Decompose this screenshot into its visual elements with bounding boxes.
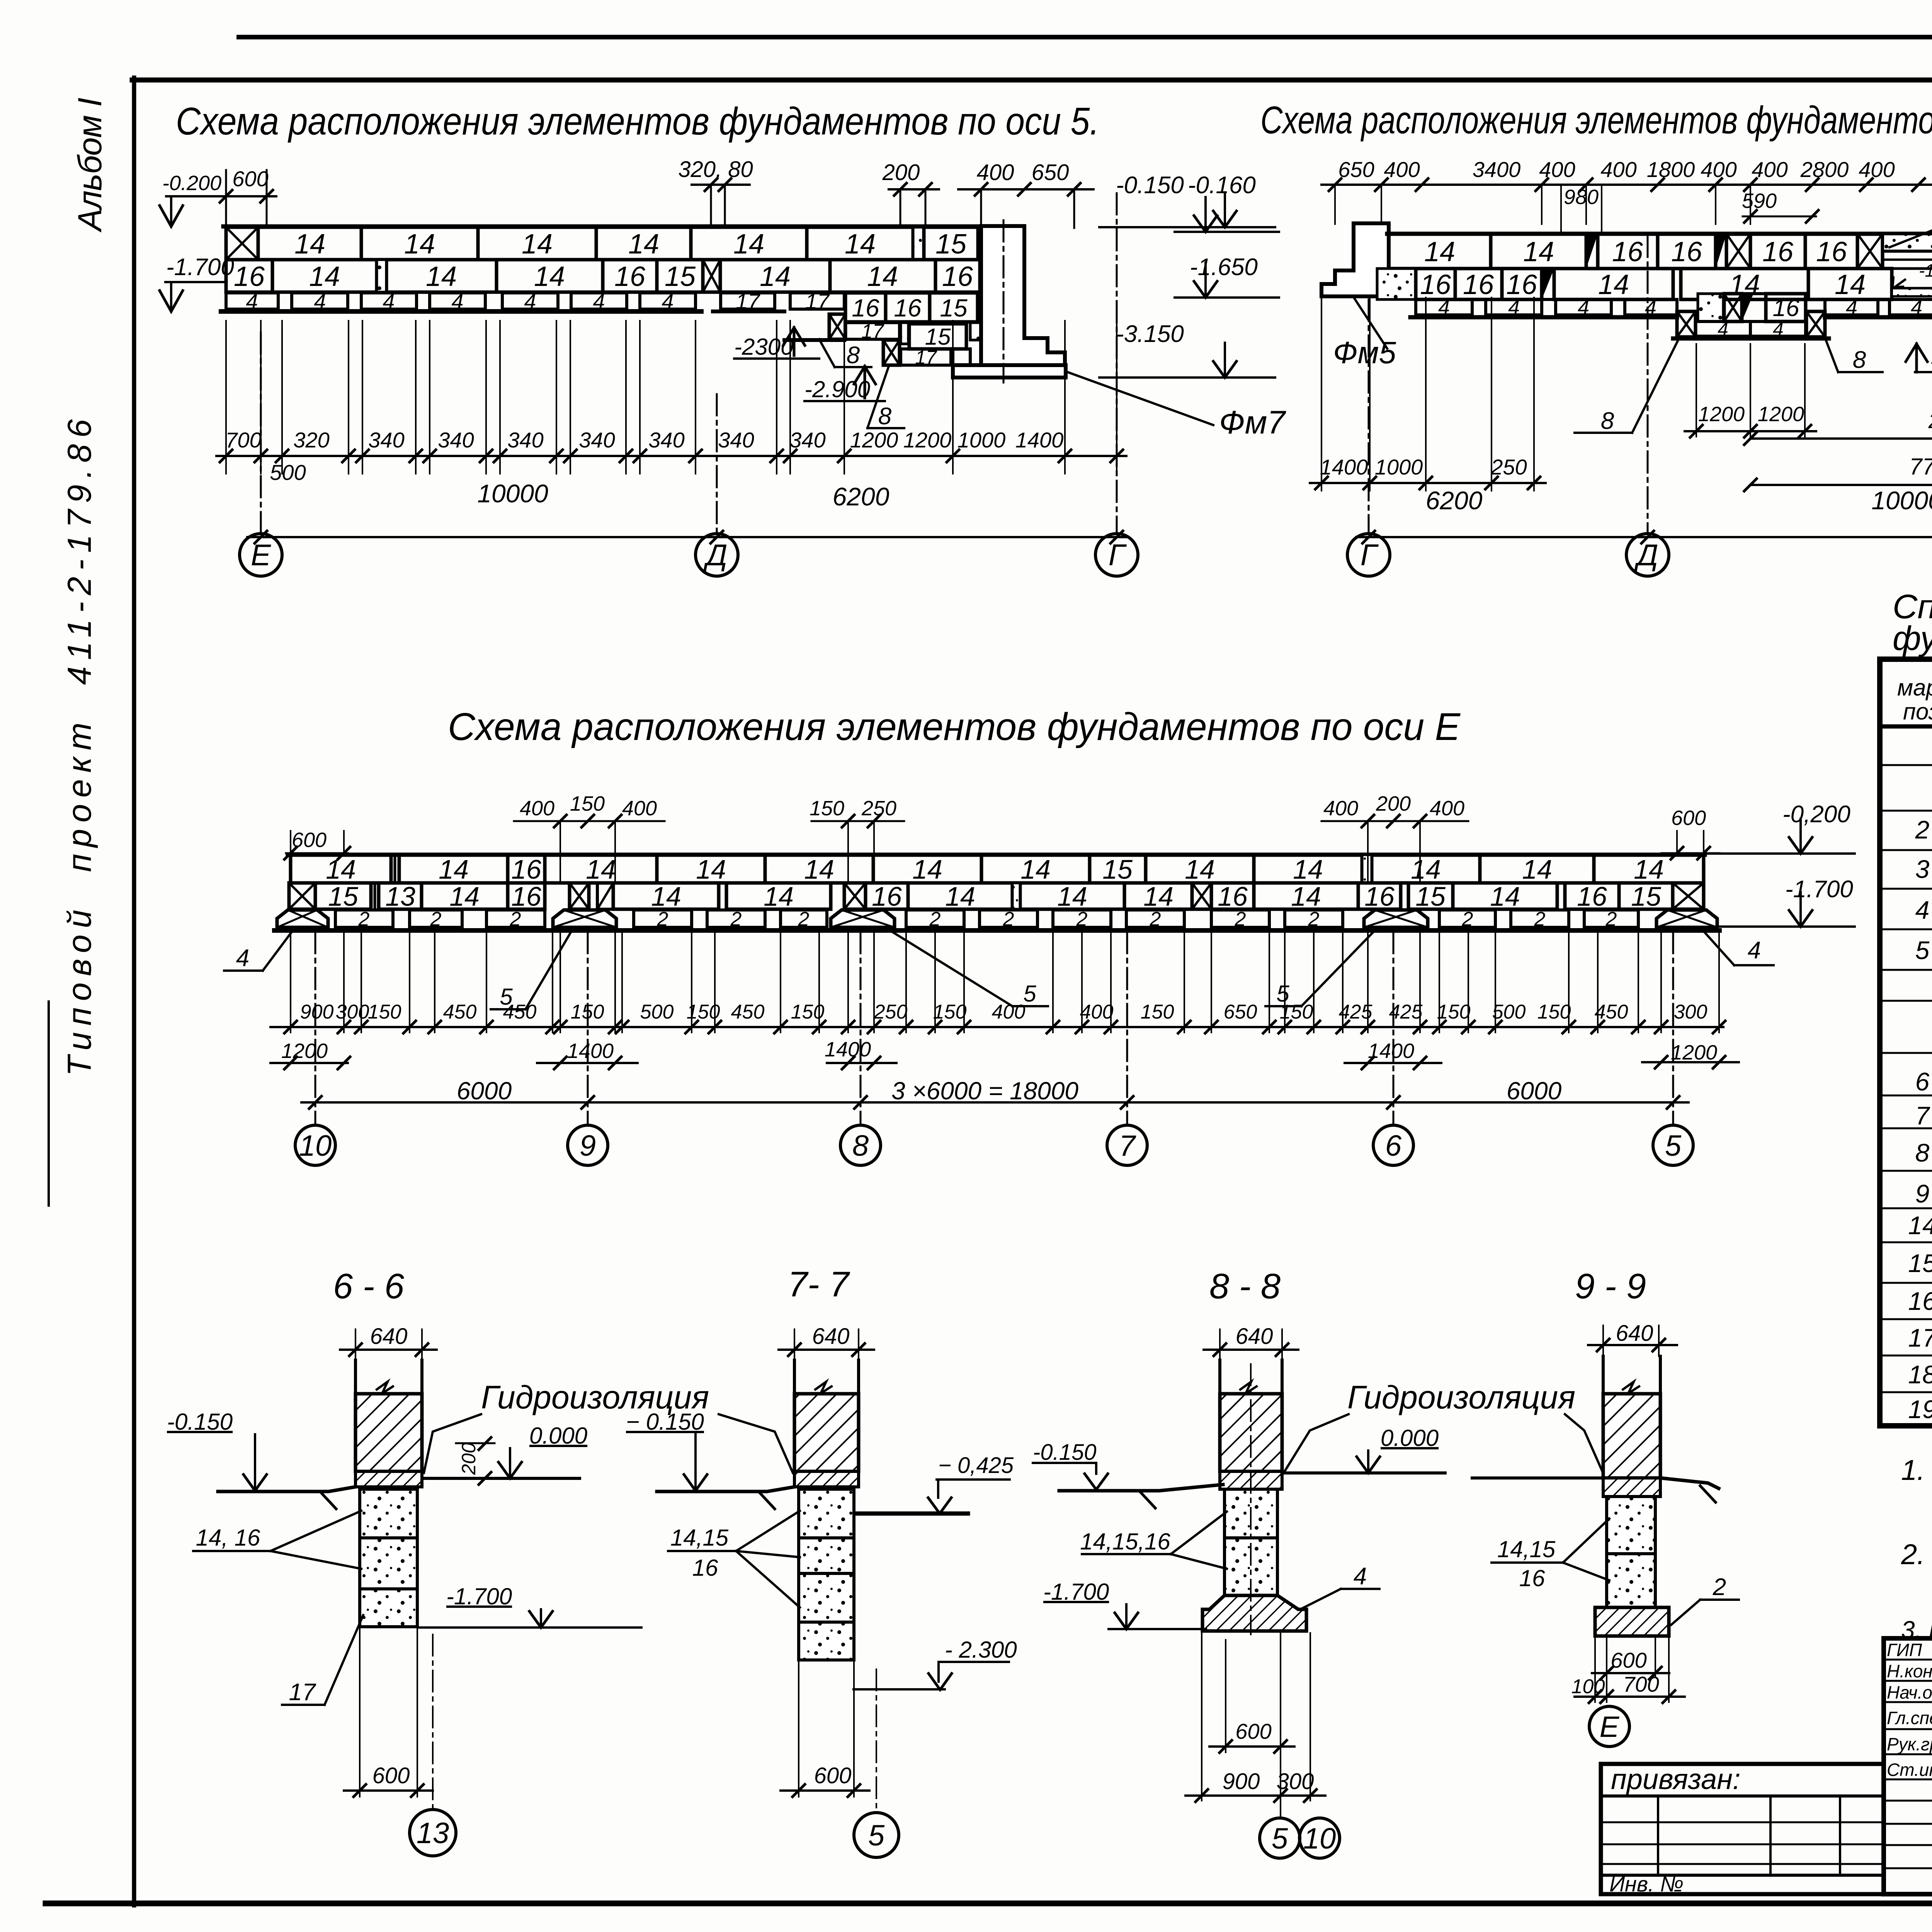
svg-text:2: 2 <box>430 908 442 930</box>
svg-text:9: 9 <box>1915 1179 1930 1208</box>
svg-text:400: 400 <box>1384 157 1420 182</box>
scheme 10: middle pier below <box>1677 311 1696 337</box>
svg-text:150: 150 <box>687 1001 720 1023</box>
svg-text:17: 17 <box>1908 1323 1932 1352</box>
svg-text:15: 15 <box>1415 881 1446 912</box>
scheme 10: base plates row <box>1416 299 1472 315</box>
section 7-7: axis circle 5 <box>876 1669 877 1812</box>
svg-text:Схема расположения элементо: Схема расположения элементов фундаментов… <box>448 705 1461 748</box>
svg-text:6: 6 <box>1385 1129 1402 1162</box>
svg-text:14: 14 <box>651 881 681 912</box>
svg-text:200: 200 <box>882 160 920 185</box>
svg-text:− 0.150: − 0.150 <box>626 1409 704 1435</box>
svg-text:1800: 1800 <box>1647 157 1695 182</box>
svg-text:Типовой проект 411-2-179.86: Типовой проект 411-2-179.86 <box>61 419 98 1076</box>
svg-text:340: 340 <box>579 428 615 452</box>
section 9-9: wall column hatched <box>1602 1356 1605 1395</box>
section 8-8: waterproofing band <box>1220 1471 1282 1489</box>
scheme E: axis centerlines <box>315 932 316 1124</box>
svg-text:14: 14 <box>534 261 565 292</box>
scheme 5: bottom dim line with ticks <box>216 455 1126 457</box>
svg-text:2: 2 <box>1308 908 1320 930</box>
svg-text:15: 15 <box>1102 854 1133 884</box>
svg-text:400: 400 <box>1430 797 1464 820</box>
svg-text:-0.150: -0.150 <box>1033 1440 1096 1465</box>
svg-text:200: 200 <box>458 1442 480 1475</box>
svg-text:150: 150 <box>1280 1001 1313 1023</box>
scheme 10: bottom dims 1400 1000 250 <box>1321 298 1322 491</box>
svg-text:10000: 10000 <box>477 479 548 508</box>
svg-text:Инв. №: Инв. № <box>1609 1872 1684 1896</box>
section 9-9: bottom dims 600 100 700 <box>1606 1638 1607 1702</box>
svg-text:14: 14 <box>404 229 435 260</box>
svg-text:9 - 9: 9 - 9 <box>1575 1267 1646 1306</box>
svg-text:400: 400 <box>992 1001 1026 1023</box>
svg-text:250: 250 <box>874 1001 908 1023</box>
svg-text:Ст.инж.: Ст.инж. <box>1887 1760 1932 1780</box>
svg-text:5: 5 <box>868 1819 885 1852</box>
scheme 5: row2 blocks <box>226 260 272 292</box>
svg-text:1400: 1400 <box>567 1039 614 1063</box>
svg-text:14: 14 <box>439 854 469 884</box>
section 9-9: axis circle E <box>1589 1706 1629 1747</box>
svg-text:150: 150 <box>1537 1001 1571 1023</box>
scheme E: base plates row 2 <box>335 910 393 927</box>
svg-text:500: 500 <box>640 1001 674 1023</box>
svg-text:16: 16 <box>1506 269 1537 300</box>
svg-text:15: 15 <box>1908 1249 1932 1277</box>
section 7-7: bottom 600 dim <box>798 1662 799 1797</box>
svg-text:2. Монолитные участки л: 2. Монолитные участки ленточных фундамен… <box>1901 1538 1932 1570</box>
svg-text:14: 14 <box>1057 881 1087 912</box>
svg-text:14, 16: 14, 16 <box>196 1525 260 1551</box>
scheme 5: row1 blocks <box>226 227 258 260</box>
svg-text:14: 14 <box>426 261 457 292</box>
svg-text:340: 340 <box>789 428 825 452</box>
svg-text:ГИП: ГИП <box>1887 1640 1922 1660</box>
scheme E: heavy bottom line <box>274 928 1719 933</box>
svg-text:450: 450 <box>503 1001 537 1023</box>
svg-text:Фм7: Фм7 <box>1219 404 1286 440</box>
svg-text:600: 600 <box>1235 1719 1271 1743</box>
scheme 10: axis centerlines <box>1368 299 1370 533</box>
svg-text:марка,: марка, <box>1897 675 1932 701</box>
svg-text:Фм5: Фм5 <box>1333 335 1396 370</box>
scheme 5: axis circle G <box>1095 534 1138 576</box>
svg-text:2: 2 <box>358 908 370 930</box>
svg-text:340: 340 <box>648 428 684 452</box>
left margin fold mark <box>48 1002 50 1206</box>
scheme 10: axis circle D <box>1626 534 1669 576</box>
svg-text:4: 4 <box>236 945 249 971</box>
svg-text:-0.200: -0.200 <box>162 172 221 195</box>
scheme 10: left wall Fm5 <box>1321 223 1389 296</box>
svg-text:16: 16 <box>1519 1565 1545 1591</box>
section 7-7: wall column hatched <box>793 1360 796 1395</box>
svg-text:400: 400 <box>1859 157 1895 182</box>
svg-text:Гл.спец: Гл.спец <box>1887 1708 1932 1728</box>
section 7-7: concrete blocks <box>799 1489 854 1538</box>
svg-text:-1.700: -1.700 <box>1043 1579 1109 1605</box>
spec table header row <box>1880 724 1932 729</box>
bottom frame line <box>46 1901 1932 1906</box>
svg-text:600: 600 <box>814 1763 852 1788</box>
svg-text:1400: 1400 <box>1015 428 1064 452</box>
svg-text:16: 16 <box>852 294 879 322</box>
svg-text:14: 14 <box>294 229 325 260</box>
svg-text:14: 14 <box>1634 854 1664 884</box>
svg-text:1200: 1200 <box>1671 1041 1717 1064</box>
svg-text:150: 150 <box>791 1001 825 1023</box>
svg-text:1200: 1200 <box>1698 403 1745 426</box>
svg-text:425: 425 <box>1339 1001 1373 1023</box>
svg-text:8: 8 <box>1853 347 1866 373</box>
svg-text:Г: Г <box>1361 538 1379 572</box>
svg-text:300: 300 <box>1277 1769 1314 1794</box>
svg-text:400: 400 <box>1539 157 1575 182</box>
svg-text:Г: Г <box>1109 538 1127 572</box>
svg-text:250: 250 <box>1490 455 1527 479</box>
svg-text:14,15: 14,15 <box>670 1525 729 1551</box>
svg-text:2: 2 <box>657 908 668 930</box>
svg-text:14: 14 <box>1490 881 1520 912</box>
svg-text:-2300: -2300 <box>734 334 793 360</box>
svg-text:650: 650 <box>1338 157 1374 182</box>
svg-text:900: 900 <box>1223 1769 1260 1794</box>
scheme 5: axis circle E <box>240 534 282 576</box>
section 6-6: ground line left <box>218 1487 355 1492</box>
section 6-6: floor line and 0.000 <box>422 1477 580 1480</box>
scheme 5: pier centerline <box>1003 220 1005 383</box>
svg-text:− 0,425: − 0,425 <box>938 1453 1014 1478</box>
svg-text:2: 2 <box>1150 908 1161 930</box>
svg-text:-1.700: -1.700 <box>446 1583 512 1609</box>
svg-text:Рук.гр.: Рук.гр. <box>1887 1734 1932 1754</box>
svg-text:0.000: 0.000 <box>529 1423 587 1449</box>
svg-text:0.000: 0.000 <box>1381 1425 1439 1451</box>
svg-text:Гидроизоляция: Гидроизоляция <box>1347 1379 1575 1415</box>
svg-text:6200: 6200 <box>1426 486 1483 515</box>
svg-text:-0.160: -0.160 <box>1188 172 1256 199</box>
svg-text:600: 600 <box>232 167 268 191</box>
svg-text:17: 17 <box>861 320 884 343</box>
svg-text:Нач.отд: Нач.отд <box>1887 1682 1932 1702</box>
svg-text:Н.контр.: Н.контр. <box>1887 1661 1932 1681</box>
scheme 10: row2 blocks <box>1377 269 1416 299</box>
svg-text:150: 150 <box>810 797 844 820</box>
svg-text:980: 980 <box>1564 185 1599 209</box>
svg-text:14: 14 <box>912 854 942 884</box>
svg-text:14: 14 <box>1143 881 1173 912</box>
svg-text:400: 400 <box>977 160 1014 185</box>
svg-text:8: 8 <box>852 1129 869 1162</box>
svg-text:2: 2 <box>730 908 742 930</box>
svg-text:Е: Е <box>1600 1711 1620 1743</box>
svg-text:8 - 8: 8 - 8 <box>1209 1267 1281 1306</box>
svg-text:2: 2 <box>1713 1574 1726 1600</box>
section 9-9: waterproofing band <box>1603 1478 1660 1497</box>
svg-text:Д: Д <box>1634 538 1658 572</box>
section 7-7: waterproofing band <box>794 1471 859 1487</box>
svg-text:1400: 1400 <box>1320 455 1368 479</box>
svg-text:3400: 3400 <box>1473 157 1521 182</box>
svg-text:2: 2 <box>798 908 810 930</box>
svg-text:16: 16 <box>1577 881 1607 912</box>
svg-text:16: 16 <box>1612 236 1643 267</box>
svg-text:14: 14 <box>628 229 659 260</box>
svg-text:поз.: поз. <box>1903 699 1932 724</box>
svg-text:650: 650 <box>1224 1001 1257 1023</box>
section 6-6: concrete blocks <box>360 1489 417 1538</box>
svg-text:Схема расположения элементов ф: Схема расположения элементов фундаментов… <box>1260 99 1932 142</box>
svg-text:450: 450 <box>731 1001 765 1023</box>
svg-text:320: 320 <box>293 428 329 452</box>
svg-text:14,15,16: 14,15,16 <box>1080 1529 1170 1554</box>
svg-text:10: 10 <box>299 1129 332 1162</box>
svg-text:14: 14 <box>1020 854 1051 884</box>
scheme 5: heavy base line <box>221 309 701 314</box>
top frame line <box>132 78 1932 83</box>
svg-text:15: 15 <box>1631 881 1662 912</box>
svg-text:1. План фундаментов и: 1. План фундаментов и общие притечания с… <box>1901 1454 1932 1486</box>
scheme E: footing plates with X (items 4/5) <box>277 910 328 927</box>
svg-text:13: 13 <box>385 881 415 912</box>
scheme 5: step block 15 lower <box>909 324 966 349</box>
svg-text:16: 16 <box>1218 881 1248 912</box>
scheme 5: monolithic pier Fm7 <box>981 226 1065 365</box>
svg-text:400: 400 <box>520 797 554 820</box>
svg-text:2: 2 <box>510 908 521 930</box>
svg-text:14: 14 <box>867 261 898 292</box>
section 8-8: wall column hatched <box>1218 1360 1221 1395</box>
svg-text:640: 640 <box>370 1324 408 1349</box>
svg-text:14: 14 <box>1523 236 1554 267</box>
scheme 10: lintel lower band + -1.200 <box>1892 269 1932 288</box>
svg-text:Схема расположения элементов: Схема расположения элементов фундаментов… <box>176 100 1099 143</box>
svg-text:14: 14 <box>1522 854 1552 884</box>
svg-text:10000: 10000 <box>1871 486 1932 515</box>
svg-text:8: 8 <box>1915 1138 1930 1167</box>
svg-text:-1.200: -1.200 <box>1919 260 1932 281</box>
svg-text:450: 450 <box>443 1001 477 1023</box>
svg-text:7750: 7750 <box>1909 454 1932 480</box>
svg-text:2: 2 <box>929 908 941 930</box>
svg-text:5: 5 <box>1272 1822 1288 1855</box>
svg-text:600: 600 <box>372 1763 410 1788</box>
svg-text:14: 14 <box>1908 1211 1932 1240</box>
svg-text:7- 7: 7- 7 <box>788 1265 850 1304</box>
svg-text:1000: 1000 <box>1375 455 1423 479</box>
svg-text:8: 8 <box>847 342 860 369</box>
svg-text:14: 14 <box>945 881 975 912</box>
svg-text:17: 17 <box>915 347 937 368</box>
section 8-8: concrete blocks <box>1225 1489 1277 1538</box>
svg-text:привязан:: привязан: <box>1611 1763 1741 1795</box>
title block: signature table frame <box>1884 1638 1932 1894</box>
svg-text:16: 16 <box>1816 236 1847 267</box>
svg-text:150: 150 <box>1141 1001 1174 1023</box>
svg-text:17: 17 <box>805 289 830 313</box>
scheme E: row1 blocks <box>291 855 391 883</box>
svg-text:2: 2 <box>1462 908 1473 930</box>
svg-text:15: 15 <box>935 229 967 260</box>
scheme 5: axis centerlines <box>260 332 262 533</box>
svg-text:500: 500 <box>1492 1001 1526 1023</box>
svg-text:16: 16 <box>942 261 973 292</box>
svg-text:5: 5 <box>1915 936 1930 964</box>
svg-text:7: 7 <box>1915 1101 1930 1130</box>
scheme E: top heavy line <box>288 853 1705 857</box>
section 6-6: waterproofing band <box>355 1471 422 1487</box>
svg-text:14: 14 <box>804 854 834 884</box>
svg-text:16: 16 <box>1420 269 1451 300</box>
svg-text:6000: 6000 <box>1507 1077 1562 1105</box>
scheme 5: base plates row (4) <box>226 293 278 309</box>
scheme 5: lowest xbox and 17 plate <box>883 340 900 365</box>
spec table row lines <box>1880 764 1932 766</box>
svg-text:4: 4 <box>1748 937 1761 964</box>
svg-text:400: 400 <box>1080 1001 1114 1023</box>
svg-text:16: 16 <box>1773 295 1799 321</box>
svg-text:400: 400 <box>1323 797 1358 820</box>
svg-text:15: 15 <box>328 881 359 912</box>
svg-text:14: 14 <box>309 261 340 292</box>
svg-text:14: 14 <box>1411 854 1441 884</box>
svg-text:9: 9 <box>580 1129 596 1162</box>
svg-text:200: 200 <box>1376 792 1411 815</box>
svg-text:5: 5 <box>1665 1129 1682 1162</box>
svg-text:900: 900 <box>300 1001 334 1023</box>
section 8-8: footing trapezoid item 4 <box>1202 1595 1306 1631</box>
svg-text:2: 2 <box>1534 908 1546 930</box>
scheme 5: stepped plates 17 <box>721 293 775 309</box>
svg-text:150: 150 <box>570 792 605 815</box>
svg-text:17: 17 <box>289 1679 316 1706</box>
svg-text:400: 400 <box>1701 157 1736 182</box>
scheme E: axis circles 10 9 8 7 6 5 <box>295 1125 335 1165</box>
svg-text:450: 450 <box>1595 1001 1628 1023</box>
svg-text:10: 10 <box>1303 1822 1336 1855</box>
paper top edge line <box>239 35 1932 39</box>
svg-text:3 ×6000 = 18000: 3 ×6000 = 18000 <box>891 1077 1078 1105</box>
section 9-9: left floor line <box>1472 1476 1603 1480</box>
svg-text:8: 8 <box>878 403 892 430</box>
scheme 10: row1 blocks <box>1387 232 1932 236</box>
svg-text:14: 14 <box>1598 269 1629 300</box>
svg-text:13: 13 <box>417 1817 449 1850</box>
svg-text:8: 8 <box>1601 408 1614 434</box>
section 8-8: bottom dims 900 300 <box>1201 1633 1202 1801</box>
svg-text:600: 600 <box>1611 1648 1646 1672</box>
scheme 5: step small xbox and 17 plate <box>829 314 845 339</box>
svg-text:16: 16 <box>511 854 541 884</box>
section 6-6: wall column hatched <box>354 1360 357 1395</box>
svg-text:16: 16 <box>511 881 541 912</box>
svg-text:300: 300 <box>1674 1001 1708 1023</box>
svg-text:1400: 1400 <box>825 1038 871 1061</box>
svg-text:3: 3 <box>1915 855 1930 883</box>
svg-text:6000: 6000 <box>457 1077 512 1105</box>
section 8-8: axis circles 5 10 <box>1250 1364 1252 1634</box>
svg-text:400: 400 <box>622 797 657 820</box>
svg-text:2: 2 <box>1003 908 1014 930</box>
svg-text:4: 4 <box>1354 1563 1367 1590</box>
svg-text:14: 14 <box>1293 854 1323 884</box>
section 8-8: floor line and 0.000 <box>1282 1471 1445 1475</box>
scheme 10: dims 2100 2520 <box>1750 437 1932 440</box>
svg-text:18: 18 <box>1908 1360 1932 1389</box>
svg-text:1400: 1400 <box>1368 1039 1414 1063</box>
svg-text:15: 15 <box>665 261 696 292</box>
svg-text:2100: 2100 <box>1928 408 1932 433</box>
svg-text:150: 150 <box>1437 1001 1471 1023</box>
scheme 10: dims 7750 700 <box>1750 484 1932 486</box>
svg-text:14: 14 <box>1185 854 1215 884</box>
svg-text:14: 14 <box>326 854 356 884</box>
svg-text:650: 650 <box>1032 160 1069 185</box>
svg-text:1200: 1200 <box>1758 403 1804 426</box>
svg-text:-1.700: -1.700 <box>166 254 234 281</box>
scheme 10: PR1 lintel band <box>1883 234 1932 251</box>
svg-text:700: 700 <box>225 428 261 452</box>
svg-text:340: 340 <box>368 428 404 452</box>
svg-text:4: 4 <box>1915 896 1930 924</box>
svg-text:2: 2 <box>1235 908 1246 930</box>
svg-text:16: 16 <box>1364 881 1395 912</box>
svg-text:6200: 6200 <box>833 482 889 511</box>
svg-text:700: 700 <box>1623 1672 1659 1696</box>
svg-text:640: 640 <box>1616 1321 1653 1346</box>
svg-text:Альбом I: Альбом I <box>71 98 109 233</box>
section 6-6: axis circle 13 <box>432 1634 434 1808</box>
svg-text:14: 14 <box>760 261 791 292</box>
section 8-8: bottom dim 600 <box>1225 1640 1226 1752</box>
section 8-8: ground lines <box>1059 1485 1223 1491</box>
svg-text:2800: 2800 <box>1800 157 1849 182</box>
svg-text:640: 640 <box>1236 1324 1273 1349</box>
svg-text:14: 14 <box>845 229 876 260</box>
svg-text:14: 14 <box>696 854 726 884</box>
svg-text:16: 16 <box>234 261 265 292</box>
svg-text:340: 340 <box>438 428 474 452</box>
section 7-7: ground line left <box>657 1487 794 1492</box>
svg-text:19: 19 <box>1908 1395 1932 1423</box>
section 7-7: right floor line <box>855 1512 968 1516</box>
svg-text:14: 14 <box>1835 269 1866 300</box>
title block: privyazan box <box>1601 1764 1884 1894</box>
svg-text:1200: 1200 <box>850 428 898 452</box>
svg-text:14: 14 <box>449 881 480 912</box>
svg-text:16: 16 <box>872 881 902 912</box>
svg-text:340: 340 <box>718 428 754 452</box>
svg-text:400: 400 <box>1600 157 1636 182</box>
svg-text:-0.150: -0.150 <box>1116 172 1184 199</box>
svg-text:16: 16 <box>1463 269 1494 300</box>
svg-text:14: 14 <box>522 229 553 260</box>
svg-text:6: 6 <box>1915 1067 1930 1096</box>
svg-text:6 - 6: 6 - 6 <box>333 1267 405 1306</box>
svg-text:600: 600 <box>1671 806 1706 830</box>
title block: signature rows <box>1884 1659 1932 1661</box>
scheme 5: bottom extension lines <box>225 321 227 474</box>
svg-text:100: 100 <box>1571 1675 1605 1698</box>
svg-text:15: 15 <box>940 294 968 322</box>
svg-text:16: 16 <box>1671 236 1702 267</box>
svg-text:2: 2 <box>1915 815 1930 844</box>
svg-text:-3.150: -3.150 <box>1116 321 1184 347</box>
scheme E: row2 blocks <box>289 883 315 909</box>
svg-text:14: 14 <box>586 854 616 884</box>
